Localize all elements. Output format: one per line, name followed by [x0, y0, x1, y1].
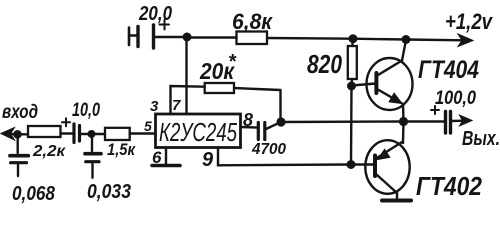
svg-text:+1,2v: +1,2v [445, 9, 493, 34]
svg-text:20,0: 20,0 [138, 3, 172, 25]
svg-text:ГТ402: ГТ402 [416, 171, 482, 201]
svg-text:9: 9 [202, 149, 214, 171]
svg-text:820: 820 [307, 49, 342, 79]
svg-text:5: 5 [144, 118, 152, 134]
svg-text:7: 7 [172, 97, 181, 114]
svg-text:6,8к: 6,8к [232, 9, 274, 34]
svg-text:3: 3 [150, 98, 159, 115]
svg-text:1,5к: 1,5к [107, 140, 136, 159]
svg-text:вход: вход [2, 102, 38, 123]
svg-text:8: 8 [243, 110, 253, 130]
svg-text:К2УС245: К2УС245 [159, 117, 237, 147]
svg-text:4700: 4700 [251, 141, 286, 158]
svg-text:*: * [228, 51, 237, 73]
svg-text:0,068: 0,068 [12, 183, 56, 205]
svg-text:100,0: 100,0 [435, 88, 476, 109]
svg-text:6: 6 [152, 148, 162, 167]
svg-text:0,033: 0,033 [87, 181, 131, 203]
svg-text:2,2к: 2,2к [32, 143, 66, 160]
svg-text:10,0: 10,0 [72, 100, 100, 121]
svg-text:Вых.: Вых. [462, 128, 500, 150]
svg-text:ГТ404: ГТ404 [418, 56, 479, 84]
